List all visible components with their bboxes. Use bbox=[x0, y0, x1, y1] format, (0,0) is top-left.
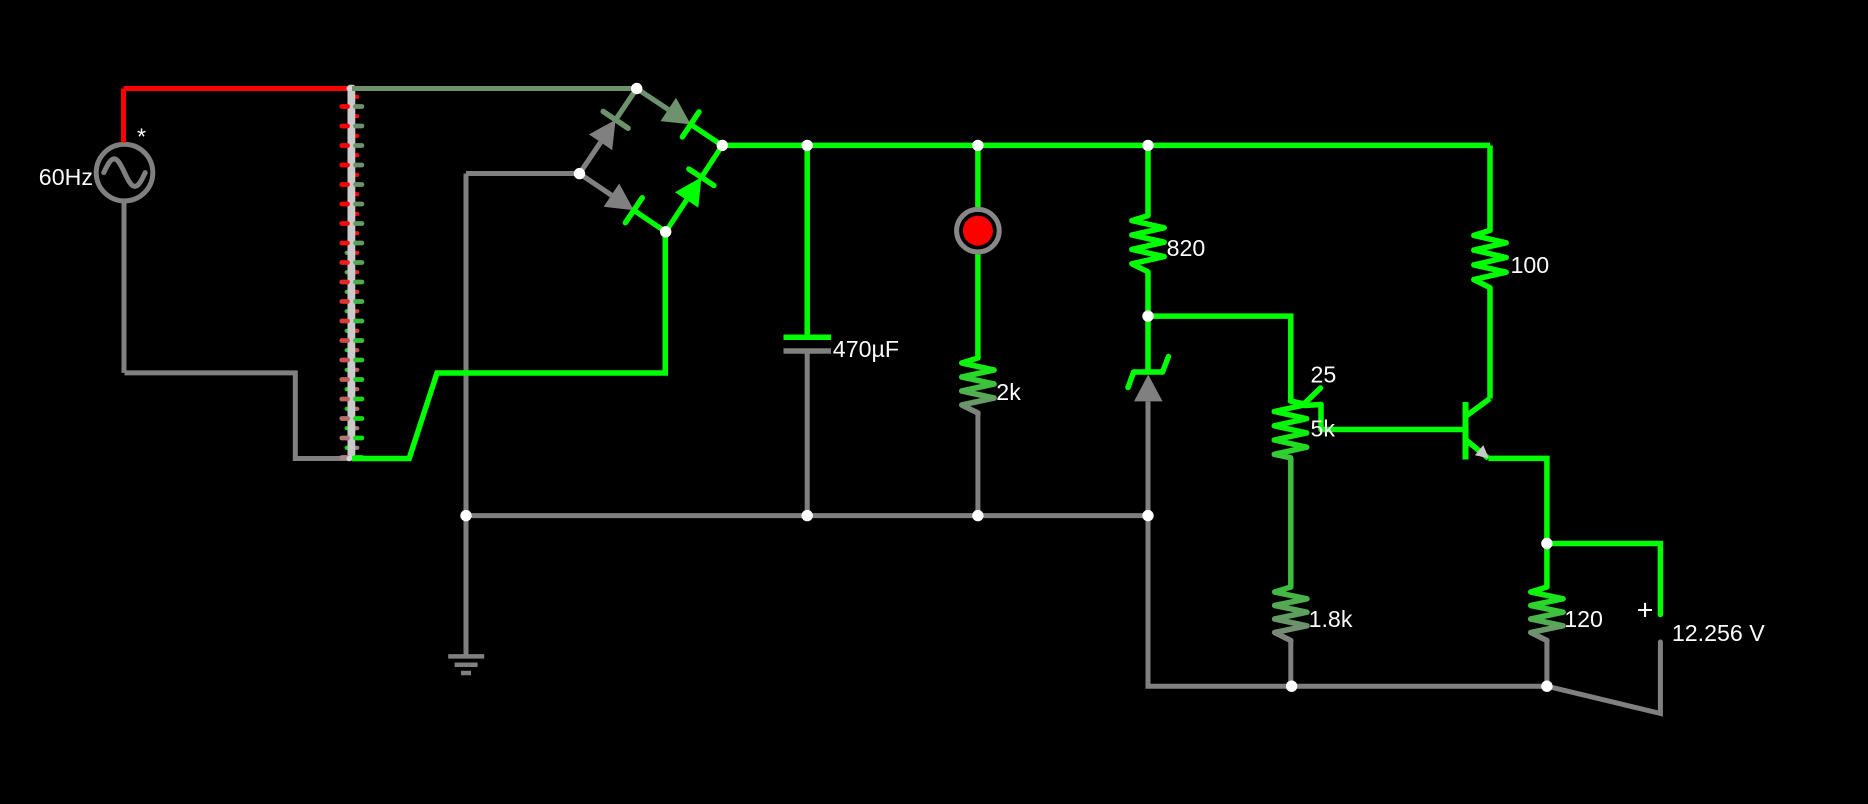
wire secondary bottom (green) bbox=[352, 232, 665, 459]
ground rail bbox=[466, 513, 1148, 518]
diode D2 bridge bbox=[637, 89, 723, 146]
zener diode bbox=[1128, 316, 1169, 401]
wire red to transformer bbox=[124, 86, 349, 91]
resistor R 100 bbox=[1474, 145, 1506, 398]
capacitor C1 470uF bbox=[784, 145, 832, 515]
svg-text:820: 820 bbox=[1167, 235, 1206, 261]
wire gray vertical to ground bbox=[464, 174, 469, 657]
wire green emitter to junction bbox=[1488, 458, 1547, 543]
wire gray 1.8k bottom bbox=[1288, 640, 1293, 686]
wire gray zener bottom bbox=[1146, 401, 1151, 515]
diode D3 bridge bbox=[580, 174, 666, 232]
svg-text:25: 25 bbox=[1311, 362, 1337, 388]
resistor R 1.8k bbox=[1275, 587, 1307, 641]
wire green node to pot bbox=[1148, 316, 1291, 401]
resistor R 120 bbox=[1531, 587, 1563, 641]
wire green pot bottom to 1.8k bbox=[1288, 458, 1294, 587]
wire green wiper to base bbox=[1321, 427, 1463, 433]
transformer T1 bbox=[342, 85, 362, 462]
svg-text:5k: 5k bbox=[1311, 416, 1336, 442]
wire gray 2k bottom bbox=[975, 413, 980, 516]
svg-text:+: + bbox=[1637, 594, 1654, 626]
svg-text:100: 100 bbox=[1511, 252, 1550, 278]
AC source V1 60Hz bbox=[96, 144, 153, 373]
wire green rail top bbox=[722, 143, 1490, 149]
svg-text:470µF: 470µF bbox=[833, 336, 899, 362]
wire red V1 top bbox=[121, 89, 126, 143]
transistor Q1 bbox=[1466, 399, 1491, 460]
wire green junction to 120 bbox=[1544, 544, 1550, 588]
wire gray V1 bottom to transformer bbox=[125, 373, 349, 459]
wire gray down right bbox=[1148, 516, 1547, 687]
resistor R 2k bbox=[962, 358, 994, 413]
LED bbox=[957, 145, 1000, 358]
resistor R 820 bbox=[1132, 145, 1164, 316]
svg-text:1.8k: 1.8k bbox=[1309, 606, 1353, 632]
diode D4 bridge bbox=[666, 145, 723, 231]
wire secondary top (sage) bbox=[352, 86, 637, 91]
potentiometer 5k bbox=[1274, 388, 1321, 458]
voltmeter leads bbox=[1547, 544, 1661, 714]
svg-text:2k: 2k bbox=[996, 379, 1021, 405]
diode D1 bridge bbox=[580, 89, 637, 174]
svg-text:12.256 V: 12.256 V bbox=[1672, 620, 1765, 646]
svg-text:60Hz: 60Hz bbox=[39, 164, 93, 190]
junction nodes bbox=[460, 83, 1552, 692]
wire gray bridge left to ground column bbox=[466, 171, 580, 176]
svg-text:*: * bbox=[137, 124, 146, 150]
svg-text:120: 120 bbox=[1564, 606, 1603, 632]
ground bbox=[448, 656, 484, 673]
wire gray 120 bottom bbox=[1544, 640, 1549, 686]
